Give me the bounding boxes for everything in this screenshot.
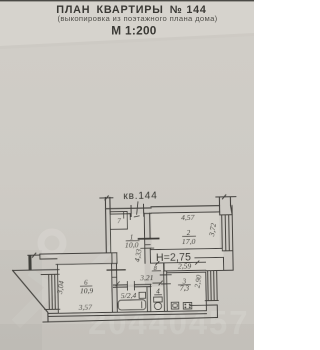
room6 window band [41, 269, 60, 313]
window band room2 right [220, 205, 233, 252]
dim tick top-right [216, 195, 236, 199]
black block [28, 255, 31, 270]
dim tick left [28, 253, 40, 257]
svg-text:4: 4 [156, 287, 160, 295]
dim ticks 2,59 [155, 261, 199, 265]
washbasin bathroom [139, 292, 146, 298]
hall SW corner [112, 253, 117, 264]
header lighter strip [0, 0, 254, 46]
svg-text:кв.144: кв.144 [123, 190, 157, 202]
svg-text:7,3: 7,3 [180, 283, 190, 292]
bottom outer line [43, 317, 217, 322]
door leaf stub [129, 214, 131, 220]
top scan border [0, 0, 254, 1]
room6 door tick [107, 269, 125, 271]
kitchen walls [164, 263, 168, 312]
svg-text:2: 2 [187, 229, 191, 237]
door hall-room2 thick tick [139, 237, 159, 239]
right wall column [219, 197, 232, 215]
toilet door tick [153, 282, 160, 284]
bottom inner double wall [49, 311, 207, 317]
svg-text:3,57: 3,57 [78, 303, 94, 312]
wall room6/bath double [112, 263, 118, 312]
svg-text:3,21: 3,21 [139, 273, 153, 282]
paper background [0, 0, 254, 350]
leader from кв.144 [134, 202, 139, 217]
bathroom top wall [113, 284, 151, 287]
room interior light fills [57, 210, 224, 313]
bottom right step [190, 305, 218, 317]
room7 closet [110, 212, 127, 230]
svg-text:Н=2,75: Н=2,75 [156, 251, 191, 264]
entry top wall [106, 207, 151, 210]
bathtub [118, 300, 146, 310]
left section walls [40, 253, 117, 254]
room 8 box [151, 261, 206, 264]
room 2 top wall [151, 206, 220, 213]
svg-text:4,57: 4,57 [181, 213, 196, 222]
svg-text:7: 7 [117, 217, 121, 225]
kitchen window band [205, 270, 219, 300]
svg-text:М 1:200: М 1:200 [111, 24, 157, 38]
bath/toilet wall [147, 284, 151, 311]
stove [183, 302, 192, 309]
hall left wall (double) [105, 197, 110, 253]
kitchen sink [171, 302, 179, 309]
room 2 bottom wall [150, 248, 221, 249]
balcony triangle [13, 270, 48, 323]
svg-text:10,0: 10,0 [125, 240, 139, 249]
svg-text:5/2,4: 5/2,4 [121, 291, 137, 300]
dim tick top-left [100, 196, 113, 200]
dim slashes 3,21 [116, 281, 163, 286]
watermark ring [41, 232, 63, 254]
svg-text:(выкопировка из поэтажного пла: (выкопировка из поэтажного плана дома) [57, 14, 217, 23]
svg-text:10,9: 10,9 [80, 286, 94, 295]
entrance door jambs [131, 204, 144, 216]
right step down to kitchen window [206, 252, 233, 271]
svg-text:17,0: 17,0 [182, 237, 196, 246]
toilet [154, 297, 163, 302]
watermark diagonal bands [16, 235, 125, 324]
kitchen door ticks [160, 275, 171, 284]
hall right wall double [144, 213, 150, 263]
